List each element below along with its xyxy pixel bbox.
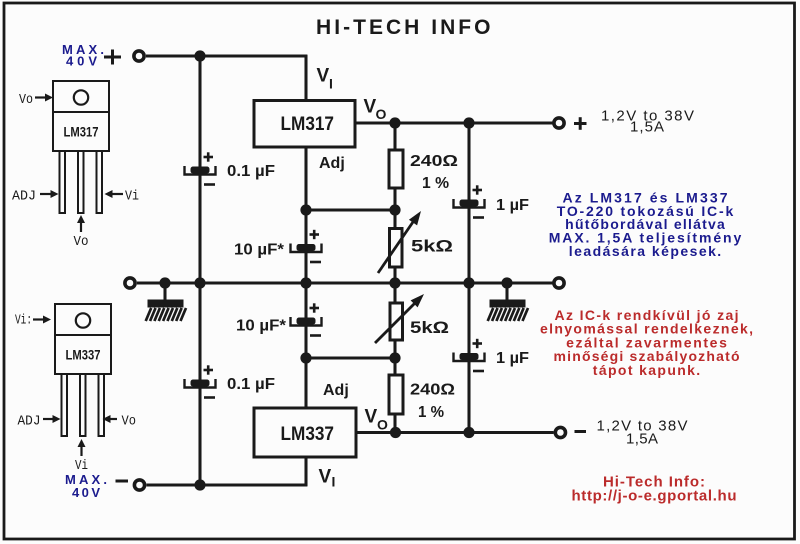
pin label Vi of LM317 package (105, 189, 140, 205)
wire R1 branch x=395 top half (393, 123, 396, 283)
pin label V_I of LM317 (317, 66, 333, 92)
minus sign at -output (575, 430, 587, 433)
svg-text:LM337: LM337 (66, 348, 101, 363)
svg-text:V: V (365, 407, 378, 428)
wire Adj2 to R3/R4 junction (306, 356, 395, 359)
svg-text:Vo: Vo (122, 414, 137, 430)
svg-text:1 %: 1 % (418, 404, 444, 421)
annotation text (blue) about LM317/LM337 TO-220 (549, 190, 742, 259)
wire LM317 Adj leg down to 0V rail (304, 147, 307, 283)
svg-text:LM317: LM317 (281, 113, 335, 135)
pin label ADJ of LM337 package (18, 414, 61, 430)
regulator U2 LM337 (254, 408, 356, 457)
resistor R1 240 ohm (top) (389, 150, 403, 188)
potentiometer R2 5k (top) (378, 211, 421, 273)
svg-text:Vi: Vi (75, 458, 88, 474)
wire 1uF branch x=469 top half (467, 123, 470, 283)
terminal 0V left (125, 278, 135, 288)
svg-text:V: V (317, 66, 330, 87)
minus sign at -40V input terminal (116, 480, 129, 483)
wire 0V rail (137, 281, 553, 284)
output label 1,2V to 38V 1,5A (top) (601, 108, 694, 136)
svg-text:O: O (376, 106, 387, 122)
output label 1,2V to 38V 1,5A (bottom) (597, 418, 688, 448)
svg-text:I: I (332, 474, 336, 490)
svg-text:HI-TECH INFO: HI-TECH INFO (316, 16, 493, 39)
svg-text:ADJ: ADJ (12, 189, 36, 205)
svg-text:http://j-o-e.gportal.hu: http://j-o-e.gportal.hu (572, 488, 737, 505)
svg-text:0.1 µF: 0.1 µF (227, 376, 275, 393)
wire -40V rail from input terminal to LM337 Vi (147, 483, 308, 486)
svg-text:LM337: LM337 (281, 423, 335, 445)
LM317 package pinout drawing (53, 81, 109, 213)
ground symbol right (488, 283, 528, 321)
terminal +output (554, 118, 564, 128)
svg-text:V: V (319, 467, 332, 488)
svg-text:Vo: Vo (19, 92, 33, 108)
junction 0V/Adj line (300, 277, 311, 288)
svg-text:tápot kapunk.: tápot kapunk. (593, 362, 700, 378)
resistor R4 240 ohm (bottom) (389, 375, 403, 414)
pin label Vi (middle leg) of LM337 package (75, 439, 88, 474)
LM337 package pinout drawing (55, 304, 111, 436)
svg-text:I: I (329, 76, 333, 92)
svg-text:Adj: Adj (323, 382, 349, 399)
svg-text:1 µF: 1 µF (496, 350, 529, 367)
svg-text:1,5A: 1,5A (630, 119, 664, 136)
terminal -40V input (134, 480, 144, 490)
annotation text (red) about noise rejection (540, 307, 753, 378)
wire 1uF branch x=469 bottom half (467, 283, 470, 433)
junction Vout2 rail / C6 (463, 427, 474, 438)
capacitor C5 0.1uF (bottom) (185, 365, 216, 397)
value label 240 ohm 1% (bottom) (410, 382, 455, 422)
plus sign at +output (574, 117, 587, 130)
wire LM337 Vi drop to -rail (304, 457, 307, 486)
svg-text:Vo: Vo (74, 234, 89, 250)
wire bypass line x=200 from +rail through 0.1uF caps to -rail (198, 56, 201, 485)
terminal -output (555, 427, 565, 437)
svg-text:leadására képesek.: leadására képesek. (569, 243, 721, 259)
junction 0V/R branch (389, 277, 400, 288)
svg-text:1 µF: 1 µF (496, 197, 529, 214)
terminal 0V right output (554, 278, 564, 288)
wire R3/R4 branch x=395 bottom half (393, 283, 396, 433)
capacitor C3 1uF (top) (454, 185, 485, 217)
node +MAX 40V input label (62, 42, 104, 69)
svg-text:10 µF*: 10 µF* (236, 318, 287, 335)
pin label V_O of LM317 (364, 97, 387, 123)
ground symbol left (146, 283, 186, 321)
junction 0V/ground-right (501, 277, 512, 288)
wire LM337 Adj leg from 0V rail down to box (304, 283, 307, 408)
svg-text:240Ω: 240Ω (410, 153, 458, 170)
wire +40V rail from input terminal to LM317 Vi corner (146, 54, 307, 57)
capacitor C4 10uF (bottom) (291, 303, 322, 335)
junction -rail / bypass line (194, 479, 205, 490)
wire LM317 Vi drop (304, 55, 307, 101)
capacitor C2 10uF (top) (291, 230, 322, 262)
svg-text:5kΩ: 5kΩ (410, 318, 449, 337)
junction Vout rail / C3 (top) (463, 117, 474, 128)
svg-text:5kΩ: 5kΩ (411, 237, 453, 256)
terminal +40V input (134, 51, 144, 61)
footer text Hi-Tech Info url (red) (572, 473, 737, 504)
value label 240 ohm 1% (top) (410, 153, 458, 192)
junction at +rail and 0.1uF branch (194, 50, 205, 61)
op-amp/regulator U1 LM317 (254, 101, 355, 148)
plus sign at +40V input terminal (104, 50, 121, 65)
pin label V_O of LM337 (365, 407, 389, 433)
svg-text:40V: 40V (66, 54, 97, 69)
pin label Vo of LM337 package (103, 414, 137, 430)
junction Adj / R1 / R2 (top) (389, 204, 400, 215)
wire Adj to R1/R2 junction (306, 208, 395, 211)
pin label Vo (middle leg) of LM317 package (74, 215, 89, 250)
svg-text:40V: 40V (72, 485, 100, 500)
node -MAX 40V input label (65, 472, 107, 500)
junction Vout2 rail / R4 (390, 427, 401, 438)
pin label Vi (tab) of LM337 package (15, 313, 51, 329)
capacitor C1 0.1uF (top) (185, 152, 216, 184)
pin label ADJ of LM317 package (12, 189, 59, 205)
svg-text:LM317: LM317 (64, 125, 99, 140)
junction 0V/ground-left (159, 277, 170, 288)
svg-text:Adj: Adj (319, 155, 345, 172)
junction Adj2 / R3 / R4 (bottom) (389, 352, 400, 363)
wire LM317 Vout to +output terminal (355, 121, 553, 124)
junction 0V/1uF branch (463, 277, 474, 288)
pin label Vo (tab) of LM317 package (19, 92, 53, 108)
junction Vout rail / R1 (top) (389, 117, 400, 128)
pin label V_I of LM337 (319, 467, 336, 490)
svg-text:ADJ: ADJ (18, 414, 41, 430)
wire LM337 Vout to -output terminal (356, 431, 554, 434)
svg-text:Vi: Vi (125, 189, 139, 205)
svg-text:Vi:: Vi: (15, 313, 32, 329)
svg-text:0.1 µF: 0.1 µF (227, 163, 275, 180)
svg-text:240Ω: 240Ω (410, 382, 455, 399)
capacitor C6 1uF (bottom) (454, 339, 485, 371)
junction 0V/bypass line (194, 277, 205, 288)
svg-text:1,5A: 1,5A (626, 431, 658, 448)
svg-text:O: O (377, 417, 388, 433)
potentiometer R3 5k (bottom) (375, 294, 424, 343)
svg-text:10 µF*: 10 µF* (234, 242, 285, 259)
svg-text:1 %: 1 % (422, 175, 449, 192)
